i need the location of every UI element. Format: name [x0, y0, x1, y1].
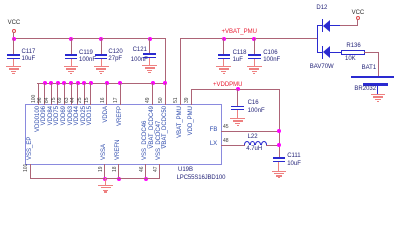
label R136 value 10K [345, 56, 356, 63]
node VDD bus junction pin 17 [118, 81, 122, 85]
label L22 [248, 134, 258, 141]
wire +VDDPMU node drop [279, 89, 280, 158]
label C121 [133, 47, 147, 54]
pin name VDD96 [41, 106, 47, 166]
pin number 47 [154, 112, 159, 172]
node VDD bus junction pin 69 [62, 81, 66, 85]
label D12 value BAV70W [310, 64, 334, 71]
label C117 [22, 49, 36, 56]
wire VCC stem (right) [357, 19, 358, 26]
pin name VDD25 [81, 106, 87, 166]
capacitor C111 plates [273, 157, 285, 158]
op-amp U19B LPC55S16JBD100 IC body [25, 104, 223, 165]
node ground rail junction pin 46 [144, 177, 148, 181]
pin name VBAT_DCDC49 [149, 106, 155, 166]
node VDD bus junction pin 96 [43, 81, 47, 85]
diode D12 top triangle [323, 20, 330, 32]
wire pin 50 stub [165, 83, 166, 105]
wire top VCC bus [13, 38, 166, 39]
wire pin 69 stub [64, 83, 65, 105]
capacitor C120 plates [95, 54, 107, 55]
label U19B [178, 167, 193, 174]
node ground rail junction pin 19 [103, 177, 107, 181]
wire pin 47 stub [159, 164, 160, 179]
wire VCC drop to VDD bus [165, 38, 166, 84]
pin number 48 [223, 138, 229, 144]
label C121 value 100nF [131, 57, 148, 64]
pin name VDD63 [68, 106, 74, 166]
pin number 25 [78, 43, 83, 103]
node LX/L22 junction [277, 143, 281, 147]
label R136 [346, 43, 360, 50]
pin number 69 [58, 43, 63, 103]
label C118 [233, 50, 247, 57]
node C106 tap [252, 37, 256, 41]
capacitor C118 plates [218, 54, 230, 55]
node VDD bus junction pin 63 [69, 81, 73, 85]
pin number 15 [85, 43, 90, 103]
wire pin 51 VBAT_PMU up to net [180, 38, 181, 105]
pin name VDD_PMU [188, 106, 194, 166]
wire VCC stem (left) [13, 32, 14, 39]
wire C106 stem [254, 38, 255, 55]
label C111 value 10uF [287, 161, 301, 168]
pin number 100 [32, 43, 37, 103]
pin name VDD75 [54, 106, 60, 166]
ground battery [371, 94, 386, 95]
ground stem rail [105, 178, 106, 186]
pin name VSSA [101, 100, 107, 160]
pin number 39 [185, 43, 190, 103]
label BAT1 value BR2032 [354, 86, 376, 93]
pin name VDD0100 [35, 106, 41, 166]
wire D12 bottom anode lead [330, 52, 342, 53]
node VDD bus junction pin 49 [151, 81, 155, 85]
wire net +VBAT_PMU [180, 38, 318, 39]
capacitor C106 plates [248, 54, 260, 55]
capacitor C16 plates [231, 106, 243, 107]
wire C121 stem [149, 38, 150, 54]
ground C117 [6, 66, 21, 67]
ground C111 [272, 171, 287, 172]
label C16 value 100nF [248, 108, 265, 115]
wire pin 84 stub [51, 83, 52, 105]
label C111 [287, 153, 300, 160]
power flag VCC circle (left) [12, 29, 16, 33]
wire pin 17 stub [120, 83, 121, 105]
label BAT1 [362, 65, 377, 72]
wire net +VDDPMU [191, 89, 280, 90]
pin number 63 [65, 43, 70, 103]
node VDD bus junction pin 50 [163, 81, 167, 85]
capacitor C121 plates [143, 53, 155, 54]
wire C118 stem [223, 38, 224, 55]
net label +VBAT_PMU [222, 29, 257, 36]
power flag VCC text (right) [352, 10, 365, 17]
ground C118 [216, 66, 231, 67]
wire pin 49 stub [152, 83, 153, 105]
power flag VCC circle (right) [356, 16, 360, 20]
battery BAT1 bottom plate [363, 83, 388, 86]
wire pin 96 stub [44, 83, 45, 105]
ground stem C16 [237, 110, 238, 119]
label C106 [263, 50, 277, 57]
wire VDD bus [37, 83, 166, 84]
ground stem C106 [254, 59, 255, 67]
wire pin 63 stub [71, 83, 72, 105]
wire R136 to battery [364, 52, 379, 53]
pin name VREFN [115, 100, 121, 160]
pin number 51 [174, 43, 179, 103]
node VDD bus junction pin 16 [105, 81, 109, 85]
ground stem C111 [278, 162, 279, 171]
wire D12 to VCC [340, 25, 358, 26]
wire pin 16 stub [106, 83, 107, 105]
wire pin 39 stub up [191, 89, 192, 105]
ground stem C119 [71, 59, 72, 67]
ground rail [98, 185, 113, 186]
wire C16 stem [237, 89, 238, 106]
diode D12 bottom triangle [323, 46, 330, 58]
label C119 [79, 50, 93, 57]
wire pin 44 stub [77, 83, 78, 105]
resistor R136 body [341, 50, 365, 55]
wire L22 to node [266, 145, 280, 146]
diode D12 top cathode bar [322, 19, 323, 32]
pin name VSS_DCDC47 [156, 100, 162, 160]
pin name VDD84 [48, 106, 54, 166]
node C118 tap [222, 37, 226, 41]
wire FB to feedback node [221, 131, 280, 132]
pin name FB [209, 127, 218, 134]
net label +VDDPMU [213, 82, 243, 89]
pin name VBAT_PMU [177, 106, 183, 166]
wire battery drop [378, 52, 379, 76]
wire pin 100 stub [38, 83, 39, 105]
ground stem C120 [101, 59, 102, 67]
power flag VCC text (left) [8, 20, 21, 27]
wire pin 19 stub [104, 164, 105, 179]
pin number 96 [38, 43, 43, 103]
wire pin 15 stub [90, 83, 91, 105]
label LPC55S16JBD100 [177, 175, 226, 182]
ground C120 [94, 66, 109, 67]
wire LX to L22 [221, 145, 245, 146]
wire D12 bottom cathode stub [317, 52, 323, 53]
label C118 value 1uF [233, 57, 243, 64]
wire D12 top cathode stub [317, 25, 323, 26]
node VDD bus junction pin 44 [76, 81, 80, 85]
pin name VREFP [117, 106, 123, 166]
pin name VDDA [103, 106, 109, 166]
label C119 value 100nF [79, 57, 96, 64]
pin number 16 [101, 43, 106, 103]
label D12 [316, 5, 327, 12]
ground stem C121 [149, 58, 150, 66]
pin number 49 [146, 43, 151, 103]
diode D12 bottom cathode bar [322, 46, 323, 59]
pin number 46 [140, 112, 145, 172]
wire pin 18 stub [118, 164, 119, 179]
node ground rail junction pin 18 [117, 177, 121, 181]
ground stem C118 [223, 59, 224, 67]
pin number 84 [45, 43, 50, 103]
node VCC/C117 junction [12, 37, 16, 41]
pin name LX [209, 141, 218, 148]
wire battery to ground [377, 85, 378, 95]
wire C117 stem [13, 38, 14, 55]
pin number 75 [52, 43, 57, 103]
ground stem C117 [13, 59, 14, 67]
wire pin 25 stub [84, 83, 85, 105]
pin name VDD69 [61, 106, 67, 166]
inductor L22 [244, 141, 250, 145]
wire ground rail [30, 178, 160, 179]
node VDD bus junction pin 15 [89, 81, 93, 85]
wire pin 101 stub [30, 164, 31, 179]
ground C121 [142, 65, 157, 66]
ground C119 [64, 66, 79, 67]
label C120 value 27pF [108, 56, 122, 63]
node C120 tap [99, 37, 103, 41]
wire C119 stem [71, 38, 72, 55]
wire D12 common cathode vertical [317, 25, 318, 53]
node VDD bus junction pin 84 [49, 81, 53, 85]
pin number 18 [113, 112, 118, 172]
label C117 value 10uF [22, 56, 36, 63]
pin number 17 [114, 43, 119, 103]
pin name VDD44 [74, 106, 80, 166]
pin name VDD15 [87, 106, 93, 166]
pin name VSS_DCDC46 [142, 100, 148, 160]
node C121 tap [148, 37, 152, 41]
ground C106 [247, 66, 262, 67]
wire D12 top anode lead [330, 25, 341, 26]
pin number 45 [223, 124, 229, 130]
capacitor C119 plates [65, 54, 77, 55]
label L22 value 4.7uH [246, 146, 262, 153]
pin number 101 [24, 112, 29, 172]
wire C120 stem [101, 38, 102, 55]
wire pin 46 stub [145, 164, 146, 179]
label C120 [108, 49, 122, 56]
pin number 44 [71, 43, 76, 103]
pin name VSS_EP [27, 100, 33, 160]
pin name VBAT_DCDC50 [162, 106, 168, 166]
node C16 tap [236, 87, 240, 91]
pin number 19 [99, 112, 104, 172]
pin number 50 [159, 43, 164, 103]
ground C16 [230, 118, 245, 119]
node VDD bus junction pin 25 [82, 81, 86, 85]
label C16 [248, 100, 259, 107]
label C106 value 100nF [263, 57, 280, 64]
wire pin 75 stub [57, 83, 58, 105]
node C119 tap [69, 37, 73, 41]
node VDD bus junction pin 75 [56, 81, 60, 85]
battery BAT1 top plate [351, 76, 393, 79]
capacitor C117 plates [7, 54, 19, 55]
node FB junction [277, 129, 281, 133]
